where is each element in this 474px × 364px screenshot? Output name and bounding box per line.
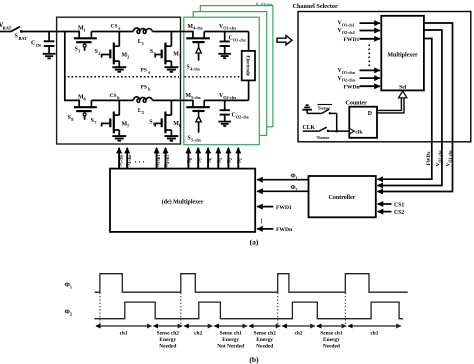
svg-text:Controller: Controller [329,195,356,201]
wire mux out FWDx [378,39,432,180]
channel box ch front [184,17,259,145]
transistor M7 [91,100,131,136]
gate drive arrow S5-chx [188,111,202,142]
svg-text:1: 1 [84,28,86,33]
label sense ch1 not needed [217,331,244,350]
transistor M2 [95,32,130,68]
label sense ch2 needed b [254,331,277,350]
svg-text:4-chx: 4-chx [193,26,204,31]
svg-text:PS: PS [141,68,147,74]
channel box stack (back) [200,6,273,127]
axis span ch2b [282,325,315,327]
dashed channel separator [185,76,242,78]
transistor M1 [74,26,97,43]
wire rail M8 to CSb node [91,99,133,101]
svg-text:...: ... [259,219,267,225]
svg-text:. . .: . . . [135,156,145,165]
node CSa label [111,24,122,31]
node FWDn into demux [257,227,293,233]
node VO2-chn input [338,76,380,83]
demux output arrow S6 [207,148,212,169]
svg-text:Multiplexer: Multiplexer [387,53,418,59]
svg-text:O2-ch2: O2-ch2 [342,30,355,35]
svg-text:FWDx: FWDx [427,151,432,166]
svg-text:FWD1: FWD1 [344,37,360,43]
ground under M7 [112,136,126,141]
svg-text:3: 3 [219,158,223,160]
demux output arrow S2 [228,148,233,169]
channel box stack (middle) [193,12,267,136]
electrode box [242,51,255,81]
demux output arrow S3 [218,148,223,169]
svg-text:O2-chn: O2-chn [342,78,356,83]
multiplexer U-MUX [381,16,424,91]
demux output arrow S7 [197,148,202,169]
wire VO1 rail down to electrode [248,32,250,52]
svg-text:O1-chx: O1-chx [233,37,247,42]
svg-text:2: 2 [98,51,100,56]
svg-text:C: C [31,41,35,47]
demux output arrow S4-chn [126,148,131,169]
svg-text:FWDn: FWDn [276,227,293,233]
transistor M6 [149,100,182,136]
svg-text:ch2: ch2 [294,331,302,337]
wire electrode to VO2 rail [248,80,250,100]
ground under M2 [112,67,126,72]
svg-text:CS1: CS1 [394,202,404,208]
svg-text:Sense ch2: Sense ch2 [157,331,180,337]
svg-text:Needed: Needed [323,344,340,350]
capacitor CO2-chx [220,100,250,121]
svg-text:Sense ch1: Sense ch1 [320,331,343,337]
svg-text:Tsense: Tsense [317,135,330,140]
svg-text:5-chx: 5-chx [191,95,202,100]
ground under CIN [43,54,56,59]
switch SBAT [11,27,28,41]
demux output arrow S5-ch1 [156,148,161,169]
label PSa [141,68,152,75]
svg-text:O2-chx: O2-chx [437,150,442,162]
waveform phi2 [94,302,403,319]
bus counter D to Sel [377,91,407,113]
dotted marker t3 [277,293,279,325]
wire L2 to box edge [152,99,180,101]
wire converter to M4 [181,31,193,33]
svg-text:O1-ch1: O1-ch1 [342,23,355,28]
svg-text:Energy: Energy [222,337,239,343]
svg-text:2: 2 [142,110,144,115]
svg-text:5-chx: 5-chx [191,137,202,142]
waveform phi1 [95,274,408,293]
svg-text:Needed: Needed [159,344,176,350]
svg-text:Energy: Energy [256,337,273,343]
label sense ch1 needed [320,331,343,350]
capacitor CIN [31,32,54,54]
transistor M8 [74,94,97,111]
svg-text:1: 1 [239,158,243,160]
svg-text:(a): (a) [250,238,259,247]
axis span sense1b [317,325,346,327]
dotted continuation [368,45,370,68]
svg-text:Needed: Needed [256,344,273,350]
dotted stage separator [64,76,179,78]
svg-text:Energy: Energy [323,337,340,343]
svg-text:Tsense: Tsense [318,106,331,111]
timing label phi2 [65,309,73,317]
node CS2 input [378,210,405,216]
wire converter to M5 [181,99,193,101]
demux output arrow S5-chn [118,148,123,169]
svg-text:clk: clk [355,129,363,135]
svg-text:CS2: CS2 [394,210,404,216]
svg-text:Sense ch2: Sense ch2 [254,331,277,337]
demux output arrow S1 [238,148,243,169]
demux output arrow S4-ch1 [165,148,170,169]
switch node S8 [68,111,87,122]
node VBAT label [0,21,12,31]
svg-text:1: 1 [78,48,80,53]
svg-text:D: D [368,111,372,117]
transistor M5-chx [186,93,210,111]
svg-text:4-chx: 4-chx [190,67,201,72]
ground under CO2 [218,122,231,126]
wire M5 to VO2 rail [204,99,248,101]
svg-text:8: 8 [189,158,193,160]
gate drive arrow S4-chx [187,42,202,71]
label PSb [141,85,152,92]
svg-text:BAT: BAT [19,36,28,41]
wire mux out VO1-chx [378,23,453,192]
svg-text:1: 1 [142,41,144,46]
node FWD1 into demux [257,205,292,211]
svg-text:2: 2 [295,187,297,192]
svg-text:ch1: ch1 [120,331,128,337]
svg-text:Counter: Counter [346,100,368,106]
svg-text:k times: k times [256,2,273,8]
svg-text:O1-chx: O1-chx [223,26,237,31]
controller U-CTRL [309,176,376,217]
node FWD1 input [344,37,380,43]
switch Tsense-not [307,105,337,132]
wire phi1 controller to demux [257,173,308,181]
node CSb label [110,93,121,100]
svg-text:Channel Selector: Channel Selector [293,3,338,10]
transistor M3 [150,32,182,68]
timing label phi1 [65,282,73,290]
dotted marker t4 [344,293,346,325]
svg-text:FWDn: FWDn [344,84,361,90]
svg-text:O1-chn: O1-chn [342,70,356,75]
inductor L2 [133,97,152,115]
svg-text:PS: PS [141,85,147,91]
svg-text:CS: CS [111,24,118,30]
node VO1-ch1 input [338,21,380,28]
node VO1-chx label [219,24,237,31]
label sense ch2 needed [157,331,180,350]
counter U-CNT [349,107,377,138]
axis span ch2a [184,325,212,327]
channel selector box [298,12,471,142]
net label VO1-chx [446,150,453,166]
svg-text:2: 2 [127,55,129,60]
wire vertical feed to bottom stage [65,32,80,101]
svg-text:(b): (b) [249,355,259,364]
svg-text:BAT: BAT [3,26,12,31]
svg-text:FWD1: FWD1 [276,205,292,211]
node VO2-chx label [219,93,237,100]
big arrow to channel selector [277,36,292,45]
axis span sense2b [249,325,280,327]
svg-text:5-chn: 5-chn [120,154,124,164]
wire battery rail to box [21,31,57,33]
wire L1 to box edge [152,31,180,33]
wire mux out VO2-chx [378,30,442,186]
wire M4 to VO1 rail [204,31,248,33]
switch Tsense [317,127,350,140]
svg-text:Energy: Energy [159,337,176,343]
svg-text:4-ch1: 4-ch1 [166,155,170,164]
svg-text:5-ch1: 5-ch1 [157,155,161,164]
capacitor CO1-chx [220,32,247,54]
svg-text:Electrode: Electrode [245,55,250,76]
svg-text:Sel: Sel [399,84,407,90]
converter box (power stages) [57,17,181,144]
svg-text:1: 1 [295,176,297,181]
wire phi2 controller to demux [257,184,308,192]
axis span ch1b [348,325,401,327]
switch node S1 [75,42,87,53]
inductor L1 [133,28,152,46]
supply bar for Tsense-not switch [302,105,312,113]
svg-text:ch2: ch2 [194,331,202,337]
wire rail M1 to CSa node [91,31,133,33]
wire battery input [0,31,11,33]
svg-text:Not Needed: Not Needed [217,344,244,350]
svg-text:7: 7 [199,158,203,160]
node CS1 input [378,202,405,208]
net label VO2-chx [436,150,443,166]
node FWDn input [344,84,380,90]
svg-text:ch1: ch1 [370,331,378,337]
transistor M4-chx [186,24,210,42]
axis span ch1 [96,325,152,327]
svg-text:2: 2 [229,158,233,160]
node VO2-ch2 input [338,28,380,35]
svg-text:IN: IN [36,43,42,48]
svg-text:(de) Multiplexer: (de) Multiplexer [162,198,204,205]
svg-text:O1-chx: O1-chx [447,150,452,162]
ground under M6 [164,136,178,141]
axis span sense1n [214,325,247,327]
dotted marker t1 [99,293,101,325]
svg-text:4-chn: 4-chn [128,154,132,164]
svg-text:O2-chx: O2-chx [236,114,250,119]
node CLK [303,125,319,131]
ground under CO1 [218,54,231,58]
svg-text:O2-chx: O2-chx [223,95,237,100]
dotted marker t2 [180,293,182,325]
svg-text:CLK: CLK [303,125,316,131]
wire top rail inside box [57,31,80,33]
svg-text:6: 6 [209,158,213,160]
demux output arrow S8 [188,148,193,169]
axis span sense2a [154,325,183,327]
ground under M3 [164,67,178,72]
svg-text:CS: CS [110,93,117,99]
de-multiplexer U-DEMUX [110,169,255,232]
node VO1-chn input [338,68,380,75]
pin clk wedge [349,128,363,135]
svg-text:Sense ch1: Sense ch1 [220,331,243,337]
